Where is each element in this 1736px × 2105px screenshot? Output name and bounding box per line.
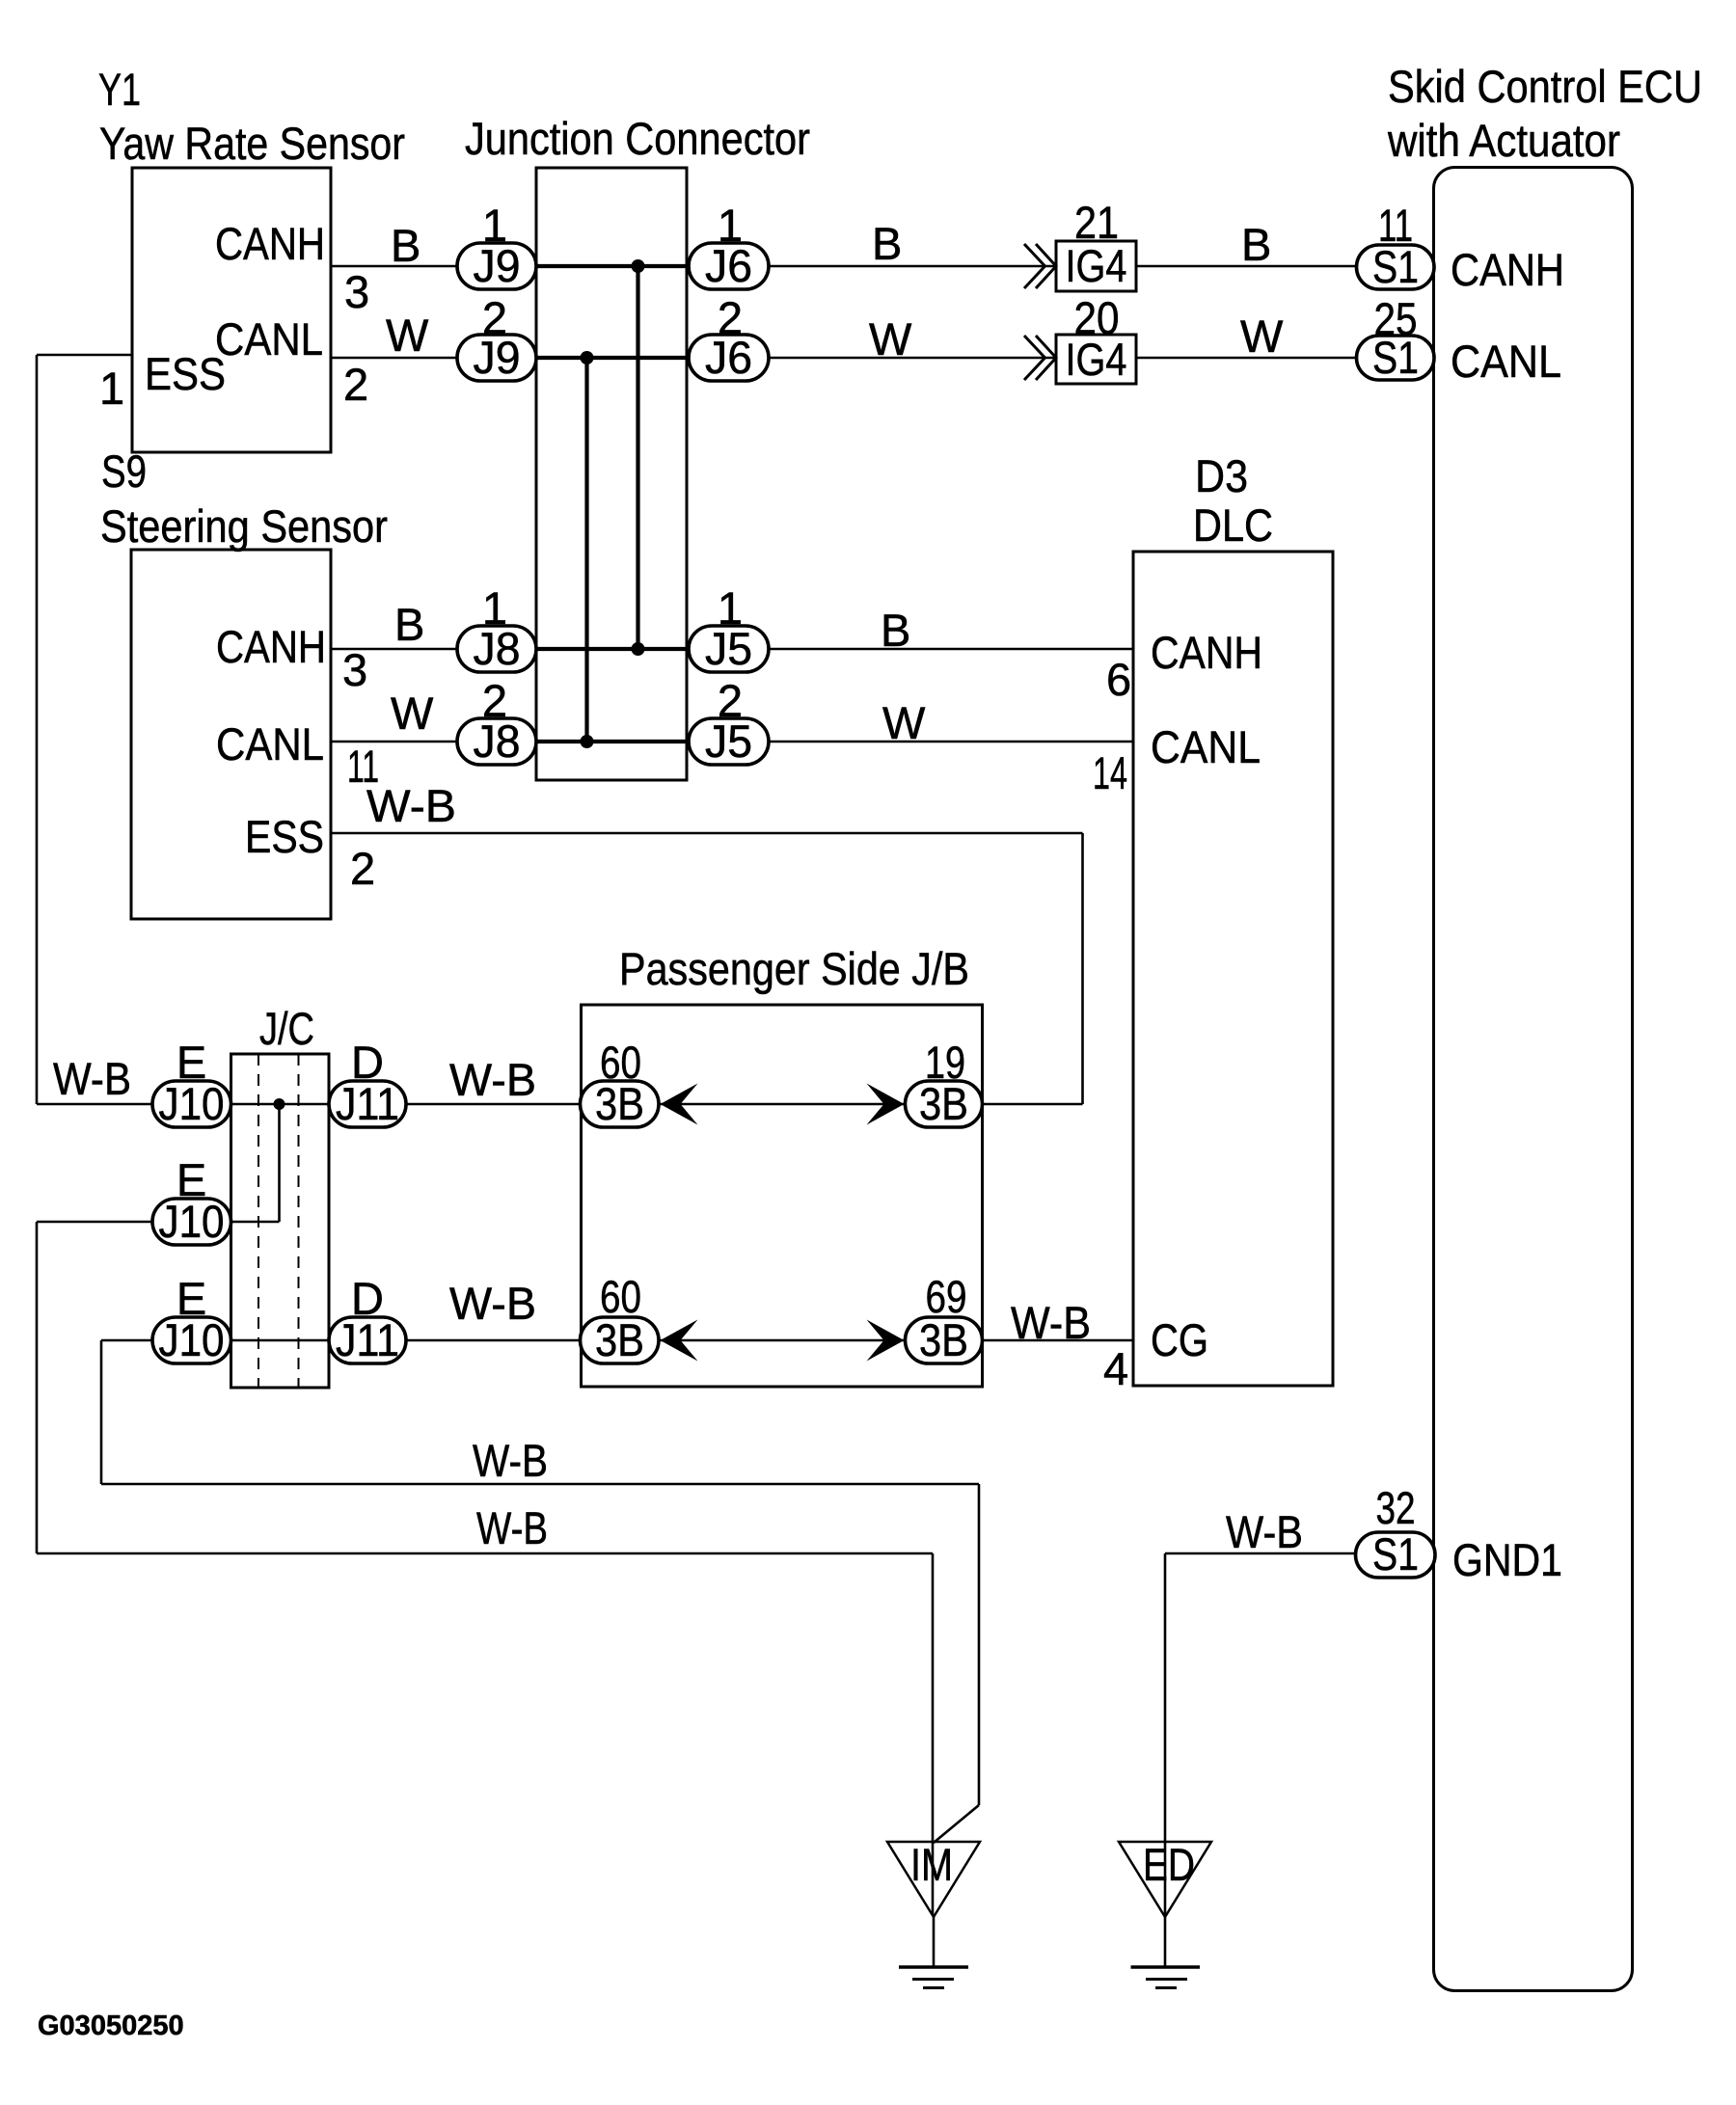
- svg-text:3: 3: [344, 266, 369, 317]
- svg-text:B: B: [391, 220, 420, 271]
- svg-text:CANL: CANL: [215, 313, 323, 364]
- J/B black arrow left row2: [661, 1320, 698, 1362]
- junction connector vertical bus B (x=661.5): [636, 266, 639, 649]
- connector pin capsule J9 pin2: [457, 335, 536, 381]
- svg-text:4: 4: [1103, 1343, 1128, 1394]
- wire steering CANL W to DLC (y=769): [331, 741, 1133, 743]
- svg-text:CANL: CANL: [216, 718, 324, 769]
- connector pin capsule 3B 69 row2: [906, 1317, 983, 1363]
- connector pin capsule J6 pin1: [689, 243, 769, 289]
- ground ED stem: [1164, 1917, 1167, 1967]
- svg-text:32: 32: [1376, 1482, 1416, 1533]
- svg-text:3B: 3B: [919, 1078, 968, 1129]
- svg-text:CANL: CANL: [1451, 336, 1561, 387]
- svg-text:2: 2: [343, 359, 368, 410]
- svg-text:CG: CG: [1151, 1314, 1208, 1365]
- wire GND1 W-B from ED riser to S1 (y=1611): [1165, 1552, 1357, 1555]
- junction dot CANH top (661.5,276): [632, 259, 645, 273]
- connector pin capsule J5 pin1: [689, 626, 769, 672]
- wire J10 second left drop x=38: [36, 1222, 39, 1553]
- ground IM stem: [933, 1917, 936, 1967]
- svg-text:14: 14: [1093, 747, 1127, 798]
- ground IM triangle: [887, 1842, 980, 1917]
- wire J10 third left drop x=105: [100, 1340, 103, 1484]
- connector pin capsule 3B 19 row1: [906, 1081, 983, 1127]
- junction dot J/C (289.5,1145): [274, 1098, 285, 1110]
- svg-text:IG4: IG4: [1066, 240, 1127, 291]
- svg-text:W-B: W-B: [53, 1053, 131, 1104]
- junction connector bus steering CANL segment (thick): [536, 740, 687, 743]
- svg-text:6: 6: [1106, 654, 1131, 705]
- svg-text:W-B: W-B: [449, 1054, 536, 1105]
- svg-text:S1: S1: [1372, 1528, 1419, 1579]
- svg-text:GND1: GND1: [1452, 1534, 1562, 1585]
- svg-text:Skid Control ECU: Skid Control ECU: [1388, 61, 1702, 112]
- connector pin capsule J10 E row1: [152, 1081, 231, 1127]
- svg-text:IM: IM: [910, 1839, 953, 1890]
- svg-text:W: W: [882, 697, 926, 748]
- svg-text:Y1: Y1: [98, 64, 141, 115]
- svg-text:J9: J9: [474, 240, 521, 291]
- svg-text:J11: J11: [336, 1314, 399, 1365]
- chevron arrows into IG4 pin20: [1024, 336, 1056, 380]
- component box Y1 Yaw Rate Sensor: [132, 168, 331, 452]
- J/B black arrow right row1: [867, 1084, 905, 1125]
- svg-text:W: W: [386, 310, 429, 361]
- svg-text:J/C: J/C: [259, 1003, 314, 1054]
- connector pin capsule J5 pin2: [689, 718, 769, 765]
- svg-text:W-B: W-B: [1011, 1297, 1091, 1348]
- component box Passenger Side J/B: [582, 1005, 983, 1387]
- svg-text:ESS: ESS: [145, 348, 226, 399]
- svg-text:J10: J10: [159, 1078, 225, 1129]
- svg-text:W-B: W-B: [1226, 1506, 1303, 1557]
- svg-text:1: 1: [99, 363, 124, 414]
- svg-text:J8: J8: [474, 623, 521, 674]
- svg-text:J11: J11: [336, 1078, 399, 1129]
- ground IM bar2: [912, 1978, 954, 1981]
- connector pin capsule J6 pin2: [689, 335, 769, 381]
- ground IM bar3: [923, 1986, 944, 1989]
- svg-text:Junction Connector: Junction Connector: [465, 113, 810, 164]
- wire diagonal into IM ground: [934, 1805, 979, 1843]
- svg-text:J6: J6: [705, 240, 752, 291]
- svg-text:3B: 3B: [919, 1314, 968, 1365]
- svg-text:CANH: CANH: [1451, 244, 1564, 295]
- connector pin capsule 3B 60 row1: [581, 1081, 660, 1127]
- connector pin capsule S1 pin32 GND1: [1356, 1532, 1436, 1578]
- component box D3 DLC: [1133, 552, 1333, 1386]
- svg-text:Yaw Rate Sensor: Yaw Rate Sensor: [99, 118, 405, 169]
- wire riser x=1015 down: [978, 1484, 981, 1805]
- svg-text:J8: J8: [474, 715, 521, 767]
- svg-text:IG4: IG4: [1066, 334, 1127, 385]
- J/B black arrow left row1: [661, 1084, 698, 1125]
- svg-text:DLC: DLC: [1193, 499, 1273, 551]
- connector IG4 box pin20: [1056, 335, 1136, 384]
- svg-text:with Actuator: with Actuator: [1387, 115, 1620, 166]
- wire ED riser x=1208: [1164, 1553, 1167, 1915]
- connector pin capsule J8 pin1: [457, 626, 536, 672]
- junction dot CANL bottom (608.5,769): [581, 735, 594, 748]
- wire W-B bottom first (y=1539): [101, 1483, 979, 1486]
- svg-text:W: W: [1240, 310, 1284, 362]
- svg-text:S1: S1: [1372, 241, 1419, 292]
- svg-text:CANH: CANH: [215, 218, 325, 269]
- wire W-B bottom second (y=1611): [37, 1552, 933, 1555]
- svg-text:B: B: [1241, 219, 1271, 270]
- svg-text:J10: J10: [159, 1196, 225, 1247]
- ground ED bar1: [1131, 1965, 1201, 1969]
- svg-text:W-B: W-B: [476, 1502, 548, 1553]
- svg-text:J6: J6: [705, 332, 752, 383]
- wire yaw CANH B from Y1 to S1 (y=276): [331, 265, 1357, 268]
- svg-text:D3: D3: [1195, 450, 1248, 501]
- connector pin capsule J9 pin1: [457, 243, 536, 289]
- svg-text:B: B: [394, 599, 424, 650]
- svg-text:CANH: CANH: [1151, 627, 1262, 678]
- component box Skid Control ECU with Actuator: [1434, 168, 1633, 1991]
- svg-text:B: B: [881, 605, 910, 656]
- svg-text:W-B: W-B: [366, 780, 456, 831]
- svg-text:ED: ED: [1143, 1839, 1195, 1890]
- wire W-B row2 J10-J11-3B-3B-CG (y=1390): [101, 1339, 1133, 1342]
- svg-text:W-B: W-B: [473, 1435, 548, 1486]
- component box S9 Steering Sensor: [131, 550, 331, 919]
- svg-text:J9: J9: [474, 332, 521, 383]
- svg-text:W: W: [869, 313, 912, 364]
- component box Junction Connector: [536, 168, 687, 780]
- svg-text:2: 2: [350, 843, 375, 894]
- wire J10 second stub (y=1267): [37, 1221, 280, 1224]
- connector IG4 box pin21: [1056, 241, 1136, 291]
- wire yaw ESS stub (y=368): [37, 354, 132, 357]
- wire yaw ESS left drop x=38: [36, 355, 39, 1104]
- svg-text:3B: 3B: [595, 1078, 644, 1129]
- connector pin capsule 3B 60 row2: [581, 1317, 660, 1363]
- J/C dashed internal line right: [298, 1054, 300, 1388]
- connector pin capsule S1 pin25 CANL: [1357, 336, 1435, 380]
- junction connector bus CANH segment (thick): [536, 264, 687, 268]
- ground ED bar3: [1155, 1986, 1177, 1989]
- wire W-B row1 J10-J11-3B-3B (y=1145): [37, 1103, 1083, 1106]
- svg-text:W-B: W-B: [449, 1278, 536, 1329]
- ground IM bar1: [899, 1965, 968, 1969]
- svg-text:CANH: CANH: [216, 621, 326, 672]
- connector pin capsule J11 D row2: [329, 1317, 406, 1363]
- connector pin capsule S1 pin11 CANH: [1357, 245, 1435, 289]
- connector pin capsule J8 pin2: [457, 718, 536, 765]
- svg-text:G03050250: G03050250: [38, 2011, 184, 2041]
- svg-text:J10: J10: [159, 1314, 225, 1365]
- junction dot CANL top (608.5,371): [581, 351, 594, 364]
- junction connector vertical bus W (x=608.5): [584, 358, 588, 742]
- svg-text:Steering Sensor: Steering Sensor: [100, 500, 388, 552]
- svg-text:Passenger Side J/B: Passenger Side J/B: [619, 943, 969, 994]
- wire steering ESS riser down: [1081, 833, 1084, 1104]
- J/C dashed internal line left: [258, 1054, 259, 1388]
- svg-text:ESS: ESS: [245, 811, 324, 862]
- svg-text:3B: 3B: [595, 1314, 644, 1365]
- wire yaw CANL W from Y1 to S1 (y=371): [331, 357, 1357, 360]
- wire steering CANH B to DLC (y=673): [331, 648, 1133, 651]
- svg-text:B: B: [872, 218, 902, 269]
- connector pin capsule J11 D row1: [329, 1081, 406, 1127]
- svg-text:3: 3: [342, 644, 367, 695]
- wire steering ESS W-B horizontal (y=864): [331, 832, 1083, 835]
- wire J/C internal riser x=289.5: [278, 1104, 281, 1222]
- chevron arrows into IG4 pin21: [1024, 244, 1056, 288]
- svg-text:S1: S1: [1372, 332, 1419, 383]
- svg-text:CANL: CANL: [1151, 721, 1261, 772]
- junction connector bus CANL segment (thick): [536, 356, 687, 360]
- junction dot CANH bottom (661.5,673): [632, 642, 645, 656]
- junction connector bus steering CANH segment (thick): [536, 647, 687, 651]
- wire IM riser x=967: [932, 1553, 935, 1915]
- component box J/C junction connector: [231, 1054, 330, 1388]
- svg-text:J5: J5: [705, 623, 752, 674]
- svg-text:W: W: [391, 688, 434, 739]
- ground ED bar2: [1146, 1978, 1187, 1981]
- connector pin capsule J10 E row3: [152, 1317, 231, 1363]
- J/B black arrow right row2: [867, 1320, 905, 1362]
- svg-text:S9: S9: [101, 445, 147, 497]
- ground ED triangle: [1119, 1842, 1211, 1917]
- svg-text:J5: J5: [705, 715, 752, 767]
- connector pin capsule J10 E row2: [152, 1199, 231, 1245]
